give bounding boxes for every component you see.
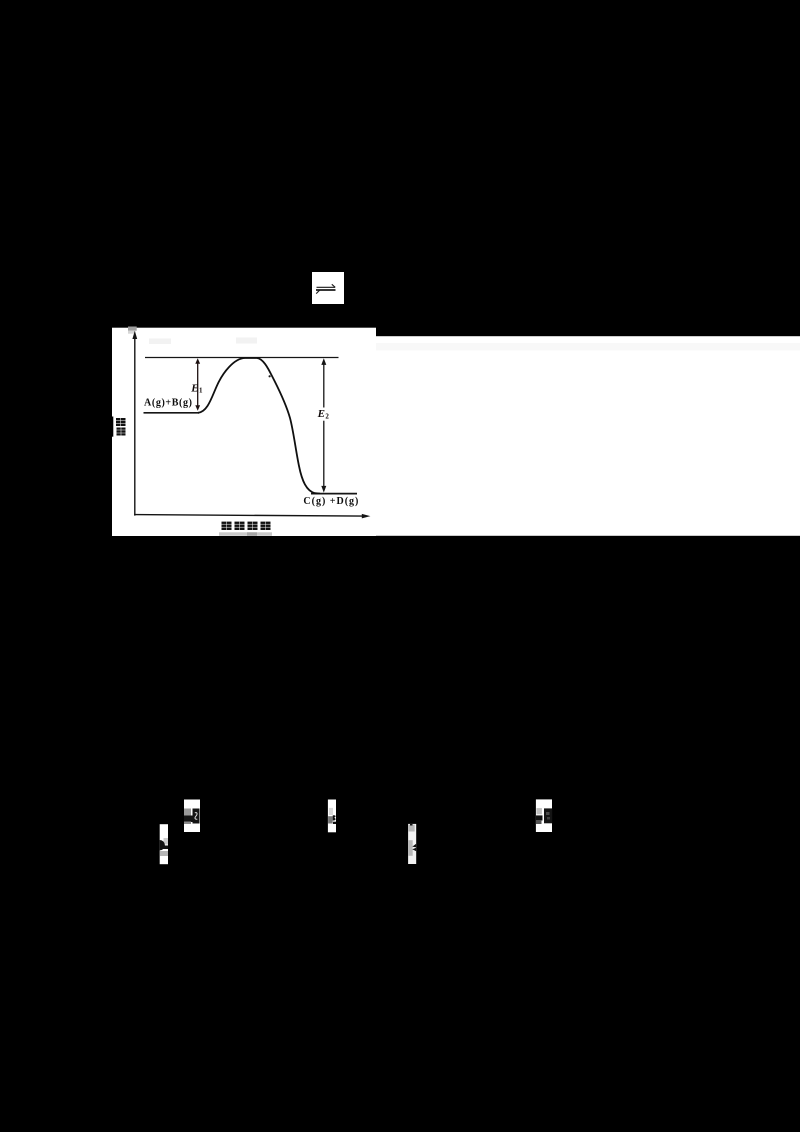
white band right of chart (376, 336, 800, 536)
equilibrium harpoons (316, 284, 336, 293)
E2 double arrow (323, 362, 325, 408)
E1 double arrow (197, 361, 199, 408)
fragment 3 (328, 800, 336, 833)
svg-text:E: E (190, 382, 198, 394)
reaction energy curve (198, 358, 320, 494)
x-axis title (reaction process) glyph blocks (222, 522, 271, 530)
product level line (311, 493, 357, 495)
fragment 2 (160, 824, 168, 864)
svg-text:C(g) +D(g): C(g) +D(g) (303, 496, 358, 507)
svg-text:A(g)+B(g): A(g)+B(g) (144, 398, 192, 409)
faint scan streaks top of panel (149, 339, 171, 345)
equilibrium symbol patch (312, 272, 344, 304)
reactant level line (144, 412, 200, 414)
fragment 1 (184, 800, 200, 833)
svg-text:1: 1 (199, 387, 203, 395)
white chart panel (112, 328, 376, 536)
gray tab under x-axis title (219, 532, 272, 536)
peak level line (145, 357, 339, 359)
black notch on left panel edge (112, 417, 113, 437)
fragment 5 (536, 799, 552, 832)
svg-text:2: 2 (325, 413, 329, 421)
gray smudge top-left of panel (128, 327, 137, 331)
fragment 4 (408, 824, 416, 864)
y-axis (134, 334, 136, 516)
spur dot on descending curve (269, 375, 271, 377)
svg-text:E: E (317, 408, 325, 420)
y-axis title (energy) glyph blocks (116, 418, 126, 436)
x-axis (134, 515, 362, 517)
